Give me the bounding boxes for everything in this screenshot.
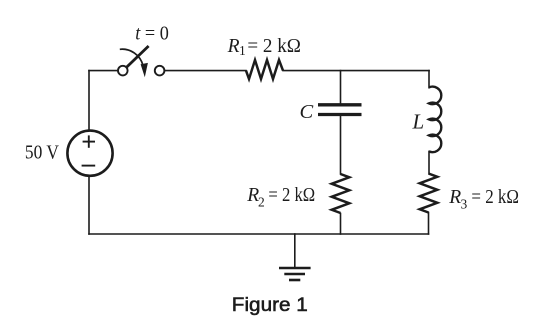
- svg-text:3: 3: [461, 196, 468, 211]
- svg-text:= 2 kΩ: = 2 kΩ: [247, 36, 301, 57]
- svg-text:R: R: [448, 187, 461, 208]
- svg-text:50 V: 50 V: [25, 143, 59, 164]
- svg-text:R: R: [227, 36, 240, 57]
- svg-text:= 2 kΩ: = 2 kΩ: [471, 187, 519, 208]
- svg-text:Figure 1: Figure 1: [232, 294, 308, 316]
- svg-text:1: 1: [239, 43, 246, 58]
- svg-text:2: 2: [258, 194, 265, 209]
- svg-text:t = 0: t = 0: [135, 23, 169, 44]
- svg-text:L: L: [412, 110, 425, 134]
- svg-text:= 2 kΩ: = 2 kΩ: [268, 185, 315, 206]
- svg-text:C: C: [300, 101, 314, 123]
